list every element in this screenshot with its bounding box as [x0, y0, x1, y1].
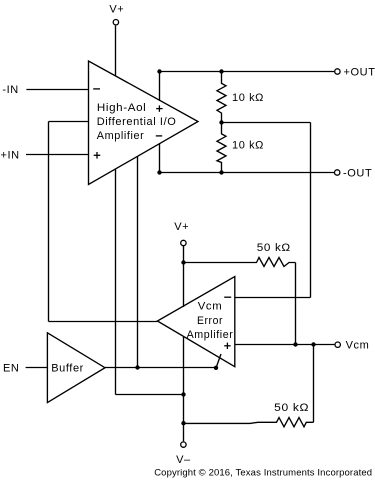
svg-text:+IN: +IN	[1, 149, 20, 161]
junction U1 bottom output	[157, 170, 161, 174]
svg-text:V+: V+	[174, 221, 189, 233]
label U1 non-inverting input	[94, 152, 101, 159]
wire U2 non-inverting input / Vcm rail	[235, 344, 335, 346]
resistor R2 10 kOhm	[217, 123, 226, 173]
wire +IN	[26, 154, 89, 156]
wire U1 bottom output to -OUT rail	[159, 143, 161, 172]
wire U1 enable pin vertical	[137, 156, 139, 367]
wire R4 to Vcm rail	[313, 345, 315, 423]
wire EN input	[26, 367, 48, 369]
junction R2 bottom	[219, 170, 223, 174]
svg-text:50 kΩ: 50 kΩ	[257, 242, 291, 254]
svg-text:High-Aol: High-Aol	[97, 102, 147, 114]
svg-text:V+: V+	[109, 4, 124, 16]
wire Vcm control vertical	[48, 122, 50, 322]
svg-text:+OUT: +OUT	[344, 66, 375, 78]
junction U1 V- / V- net	[181, 392, 185, 396]
resistor R1 10 kOhm	[217, 72, 226, 123]
junction R1 top	[219, 69, 223, 73]
svg-text:Copyright © 2016, Texas Instru: Copyright © 2016, Texas Instruments Inco…	[154, 468, 372, 479]
wire R3 to Vcm rail	[295, 263, 297, 345]
svg-text:Error: Error	[197, 315, 223, 327]
wire V+ supply to U1	[115, 26, 117, 77]
wire feedback vertical	[310, 123, 312, 298]
svg-text:Differential I/O: Differential I/O	[97, 116, 177, 128]
wire U1 V- pin to V- net	[116, 394, 184, 396]
svg-text:50 kΩ: 50 kΩ	[274, 402, 309, 414]
resistor R3 50 kOhm	[184, 258, 296, 267]
label U1 inverting input	[93, 88, 100, 90]
junction R4 / V- net	[181, 421, 185, 425]
svg-text:10 kΩ: 10 kΩ	[232, 140, 264, 152]
wire U1 Vcm control input	[49, 121, 89, 123]
junction U1 top output	[157, 69, 161, 73]
junction R3/Vcm rail	[293, 342, 297, 346]
junction R4/Vcm rail	[311, 342, 315, 346]
label U2 non-inverting input	[224, 343, 230, 349]
resistor R4 50 kOhm	[184, 418, 314, 427]
label U1 output -	[156, 135, 162, 137]
wire +OUT rail	[160, 71, 335, 73]
wire V- net vertical	[183, 337, 185, 441]
terminal V+ (top)	[113, 20, 118, 25]
junction V+ to R3	[181, 260, 185, 264]
wire R1/R2 midpoint to feedback	[222, 122, 311, 124]
junction R1/R2 midpoint	[219, 120, 223, 124]
wire -IN	[26, 89, 88, 91]
svg-text:Vcm: Vcm	[346, 340, 370, 352]
terminal V-	[181, 442, 186, 447]
wire U2 enable diagonal	[216, 354, 221, 368]
svg-text:10 kΩ: 10 kΩ	[232, 92, 264, 104]
junction buffer out / U2 enable	[214, 366, 218, 370]
wire U1 V- pin vertical	[115, 169, 117, 395]
svg-text:Amplifier: Amplifier	[187, 329, 234, 341]
label U2 inverting input	[224, 296, 231, 298]
wire buffer output	[105, 367, 216, 369]
wire U2 inverting input	[235, 297, 311, 299]
terminal V+ (error amp)	[181, 240, 186, 245]
svg-text:EN: EN	[3, 363, 19, 375]
wire U2 output to Vcm control	[49, 321, 158, 323]
terminal Vcm	[335, 342, 340, 347]
terminal -OUT	[335, 170, 340, 175]
svg-text:Vcm: Vcm	[198, 301, 223, 313]
wire U1 top output to +OUT rail	[159, 72, 161, 101]
op-amp U2 Vcm Error Amplifier	[157, 277, 234, 367]
svg-text:Buffer: Buffer	[51, 363, 84, 375]
svg-text:-OUT: -OUT	[343, 167, 372, 179]
svg-text:-IN: -IN	[2, 84, 18, 96]
wire -OUT rail	[160, 172, 335, 174]
svg-text:Amplifier: Amplifier	[97, 130, 145, 142]
svg-text:V–: V–	[176, 454, 191, 466]
buffer U3	[47, 333, 105, 403]
junction buffer out / U1 enable	[135, 365, 139, 369]
op-amp U1 High-Aol Differential I/O Amplifier	[89, 61, 199, 185]
terminal +OUT	[335, 69, 340, 74]
wire V+ supply to U2	[183, 246, 185, 307]
label U1 output +	[156, 105, 162, 111]
